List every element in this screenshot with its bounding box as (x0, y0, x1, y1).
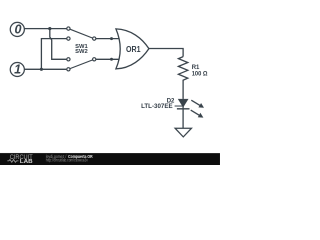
svg-text:R1: R1 (192, 65, 200, 71)
svg-text:0: 0 (15, 22, 22, 36)
svg-text:100 Ω: 100 Ω (192, 72, 208, 78)
svg-text:OR1: OR1 (126, 45, 141, 54)
svg-text:SW2: SW2 (75, 49, 88, 55)
svg-text:http://circuitlab.com/csswca3v: http://circuitlab.com/csswca3v (46, 157, 89, 162)
svg-text:1: 1 (14, 62, 21, 76)
svg-text:LTL-307EE: LTL-307EE (141, 103, 173, 110)
svg-text:LAB: LAB (20, 159, 33, 165)
